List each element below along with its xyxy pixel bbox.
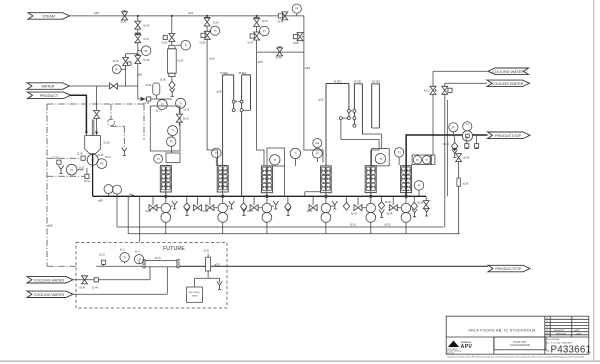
svg-text:TI: TI xyxy=(294,152,297,156)
svg-text:61.36: 61.36 xyxy=(463,184,469,186)
svg-text:TI: TI xyxy=(214,29,217,33)
svg-text:03.98: 03.98 xyxy=(278,22,284,24)
svg-text:FI: FI xyxy=(466,123,469,127)
svg-text:63.12: 63.12 xyxy=(424,91,430,93)
svg-text:REV: REV xyxy=(546,333,551,335)
svg-text:a25: a25 xyxy=(319,97,324,101)
svg-text:TI: TI xyxy=(184,43,187,47)
svg-text:PI: PI xyxy=(452,125,455,129)
svg-text:FUTURE: FUTURE xyxy=(163,246,185,252)
svg-text:PI: PI xyxy=(145,49,148,53)
svg-text:FI: FI xyxy=(316,151,319,155)
svg-text:01.21: 01.21 xyxy=(105,157,111,159)
svg-text:PRODUCT/CIP: PRODUCT/CIP xyxy=(495,134,522,138)
svg-text:TI: TI xyxy=(171,129,174,133)
svg-text:01.49: 01.49 xyxy=(144,60,150,62)
svg-text:63.20: 63.20 xyxy=(385,225,391,227)
svg-text:210 SEC.: 210 SEC. xyxy=(372,81,382,83)
svg-text:PI: PI xyxy=(115,67,118,71)
svg-text:PI: PI xyxy=(295,7,298,11)
svg-text:01.20: 01.20 xyxy=(98,155,104,157)
svg-text:01.46: 01.46 xyxy=(144,26,150,28)
svg-text:30 SEC.: 30 SEC. xyxy=(220,73,229,75)
svg-text:01.56: 01.56 xyxy=(77,154,83,156)
svg-text:WATER: WATER xyxy=(42,85,55,89)
svg-text:01.06: 01.06 xyxy=(104,143,110,145)
svg-text:60.40: 60.40 xyxy=(385,202,391,204)
svg-text:63.45: 63.45 xyxy=(80,288,86,290)
svg-text:60 SEC.: 60 SEC. xyxy=(354,81,363,83)
svg-text:TANK: TANK xyxy=(192,295,198,298)
svg-text:FE: FE xyxy=(315,141,319,145)
svg-text:01.05: 01.05 xyxy=(53,158,59,160)
svg-text:01.48: 01.48 xyxy=(113,61,119,63)
svg-text:DATE: DATE xyxy=(576,332,582,335)
svg-text:PRODUCT/CIP: PRODUCT/CIP xyxy=(495,267,522,271)
svg-text:60.44: 60.44 xyxy=(443,144,449,146)
svg-text:01.50: 01.50 xyxy=(162,43,168,45)
svg-text:01.02: 01.02 xyxy=(144,103,150,105)
svg-text:02.34: 02.34 xyxy=(262,21,268,23)
svg-text:TI: TI xyxy=(179,101,182,105)
svg-text:a55: a55 xyxy=(48,224,53,228)
svg-text:TI: TI xyxy=(215,151,218,155)
svg-text:01.71: 01.71 xyxy=(156,111,162,113)
svg-text:02.57: 02.57 xyxy=(248,43,254,45)
svg-text:COOLING WATER: COOLING WATER xyxy=(34,279,65,283)
svg-text:01.54: 01.54 xyxy=(84,181,90,183)
svg-text:01.23: 01.23 xyxy=(79,168,85,170)
svg-text:REVISION: REVISION xyxy=(556,333,566,335)
svg-text:PRODUCT: PRODUCT xyxy=(40,94,59,98)
svg-text:TI: TI xyxy=(398,150,401,154)
svg-text:Date 02/03/01: Date 02/03/01 xyxy=(546,338,560,341)
svg-text:61.6: 61.6 xyxy=(120,250,125,252)
svg-text:60.41: 60.41 xyxy=(351,214,357,216)
svg-text:01.66: 01.66 xyxy=(160,80,166,82)
svg-text:60.89: 60.89 xyxy=(418,203,424,205)
svg-text:62.26: 62.26 xyxy=(350,225,356,227)
svg-text:60.42: 60.42 xyxy=(464,158,470,160)
svg-text:01.45: 01.45 xyxy=(121,22,127,24)
svg-text:FLOW DIAGRAM: FLOW DIAGRAM xyxy=(510,344,530,347)
svg-text:61.4: 61.4 xyxy=(135,252,140,254)
svg-text:03.41: 03.41 xyxy=(247,211,253,213)
svg-text:RECOVERY: RECOVERY xyxy=(189,292,201,294)
svg-text:03.60: 03.60 xyxy=(276,58,282,60)
svg-text:01.22: 01.22 xyxy=(99,255,105,257)
svg-text:Denmark: Denmark xyxy=(447,352,454,355)
svg-text:DATE: DATE xyxy=(574,329,580,332)
svg-text:a33: a33 xyxy=(94,11,99,15)
svg-text:a25: a25 xyxy=(305,66,310,70)
svg-text:TI: TI xyxy=(273,158,276,162)
svg-text:ARLA FOODS AB, IC STOCKHOLM: ARLA FOODS AB, IC STOCKHOLM xyxy=(468,329,535,333)
svg-text:FI: FI xyxy=(161,103,164,107)
svg-text:a33: a33 xyxy=(188,11,193,15)
svg-text:PI: PI xyxy=(157,157,160,161)
svg-text:04.41: 04.41 xyxy=(307,211,313,213)
svg-text:COOLING WATER: COOLING WATER xyxy=(34,293,65,297)
svg-text:P433661: P433661 xyxy=(551,344,592,355)
svg-text:a55: a55 xyxy=(98,199,103,203)
svg-text:02.34: 02.34 xyxy=(213,23,219,25)
svg-text:34 SEC.: 34 SEC. xyxy=(334,81,343,83)
svg-text:PI: PI xyxy=(418,184,421,188)
svg-text:TI: TI xyxy=(263,29,266,33)
svg-text:63.44: 63.44 xyxy=(92,288,98,290)
svg-text:01.47: 01.47 xyxy=(144,39,150,41)
svg-text:01.58: 01.58 xyxy=(200,43,206,45)
svg-text:a25: a25 xyxy=(258,60,263,64)
svg-text:a33: a33 xyxy=(215,263,220,267)
svg-text:a25: a25 xyxy=(210,57,215,61)
svg-text:a25: a25 xyxy=(217,90,222,94)
svg-text:This drawing is the property o: This drawing is the property of Invensys… xyxy=(447,355,585,358)
svg-text:LP: LP xyxy=(137,257,141,261)
svg-text:01.41: 01.41 xyxy=(146,211,152,213)
svg-text:REVISION: REVISION xyxy=(554,330,564,332)
svg-text:01.61: 01.61 xyxy=(183,119,189,121)
svg-text:01.78: 01.78 xyxy=(184,110,190,112)
svg-text:a55: a55 xyxy=(137,73,142,77)
svg-text:99 SEC.: 99 SEC. xyxy=(239,73,248,75)
svg-text:03.86: 03.86 xyxy=(293,43,299,45)
svg-text:61.01: 61.01 xyxy=(204,251,210,253)
svg-text:COOLING WATER: COOLING WATER xyxy=(492,70,524,74)
svg-text:APV: APV xyxy=(461,344,473,350)
svg-text:TI: TI xyxy=(123,255,126,259)
svg-text:02.54: 02.54 xyxy=(146,85,152,87)
svg-text:02.41: 02.41 xyxy=(203,211,209,213)
svg-text:STEAM: STEAM xyxy=(42,14,55,18)
svg-text:61.70: 61.70 xyxy=(155,258,161,260)
svg-text:COOLING WATER: COOLING WATER xyxy=(492,82,524,86)
svg-text:TI: TI xyxy=(425,158,428,162)
svg-text:TI: TI xyxy=(379,157,382,161)
svg-text:60.48: 60.48 xyxy=(387,214,393,216)
svg-text:PI: PI xyxy=(170,140,173,144)
svg-text:PI: PI xyxy=(416,158,419,162)
svg-text:01.30: 01.30 xyxy=(178,61,184,63)
